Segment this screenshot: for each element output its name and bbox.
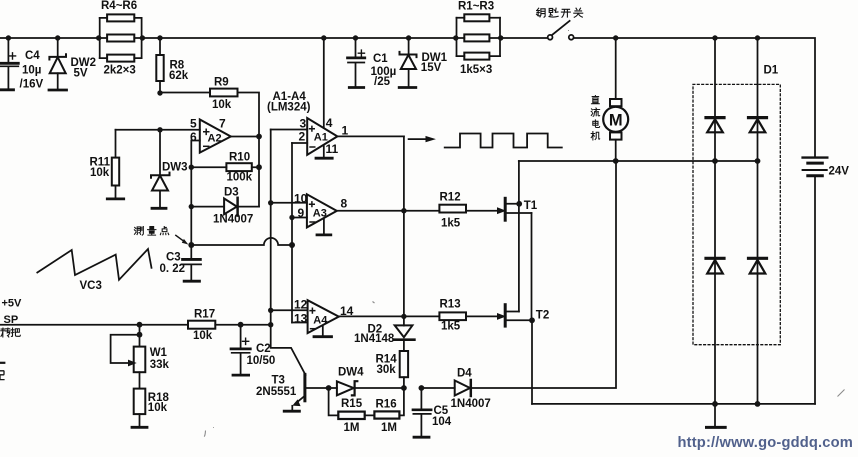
svg-text:R17: R17 [194,308,215,320]
svg-text:100k: 100k [227,172,253,184]
svg-text:3: 3 [300,116,307,130]
svg-text:10k: 10k [90,167,110,179]
svg-text:C4: C4 [25,50,40,62]
svg-text:5: 5 [190,117,197,131]
svg-text:http://www.go-gddq.com: http://www.go-gddq.com [678,435,854,451]
svg-text:7: 7 [219,117,226,131]
svg-text:A4: A4 [313,314,328,326]
svg-text:1M: 1M [344,422,360,434]
svg-text:R15: R15 [341,398,363,410]
svg-text:W1: W1 [150,347,168,359]
svg-text:9: 9 [298,206,305,220]
svg-text:104: 104 [432,416,452,428]
svg-text:R9: R9 [214,77,229,89]
svg-text:/16V: /16V [20,79,44,91]
svg-text:T2: T2 [536,310,549,322]
svg-text:1N4007: 1N4007 [451,398,491,410]
svg-text:C3: C3 [166,252,181,264]
svg-text:(LM324): (LM324) [267,102,311,114]
svg-text:1k5: 1k5 [441,217,461,229]
svg-text:R12: R12 [440,192,461,204]
svg-text:5V: 5V [74,68,88,80]
svg-text:VC3: VC3 [80,280,102,292]
svg-text:T1: T1 [524,200,538,212]
svg-text:T3: T3 [272,375,285,387]
svg-text:DW4: DW4 [338,367,364,379]
svg-text:M: M [609,112,623,130]
svg-text:DW3: DW3 [162,162,188,174]
svg-text:1M: 1M [381,422,397,434]
svg-text:11: 11 [326,142,339,156]
svg-text:A1: A1 [314,132,328,144]
svg-text:12: 12 [294,298,308,312]
svg-text:4: 4 [326,116,333,130]
svg-text:1k5×3: 1k5×3 [460,64,492,76]
svg-text:C1: C1 [373,53,388,65]
svg-text:10: 10 [294,191,308,205]
svg-text:2: 2 [299,129,306,143]
svg-text:R4~R6: R4~R6 [101,0,137,12]
svg-text:8: 8 [341,196,348,210]
svg-text:D4: D4 [457,367,472,379]
svg-text:1N4148: 1N4148 [354,333,395,345]
svg-text:R13: R13 [440,299,461,311]
svg-text:R1~R3: R1~R3 [458,1,494,13]
svg-text:10k: 10k [193,330,213,342]
svg-text:10k: 10k [212,99,232,111]
svg-text:6: 6 [190,130,197,144]
svg-text:14: 14 [340,304,354,318]
svg-text:R16: R16 [376,399,397,411]
svg-text:1: 1 [342,124,349,138]
svg-text:C2: C2 [256,343,271,355]
svg-text:13: 13 [294,312,308,326]
svg-text:A3: A3 [313,208,327,220]
svg-text:1k5: 1k5 [441,321,461,333]
svg-text:15V: 15V [421,62,442,74]
svg-text:1N4007: 1N4007 [213,214,253,226]
svg-text:R10: R10 [229,152,250,164]
svg-text:33k: 33k [150,359,170,371]
svg-text:0. 22: 0. 22 [160,263,186,275]
svg-text:A2: A2 [208,133,222,145]
svg-text:2k2×3: 2k2×3 [104,65,136,77]
svg-text:SP: SP [4,314,19,326]
svg-text:2N5551: 2N5551 [256,386,297,398]
svg-text:D3: D3 [224,187,239,199]
svg-text:10k: 10k [148,402,168,414]
svg-text:24V: 24V [829,166,850,178]
svg-text:10/50: 10/50 [247,355,276,367]
svg-text:/25: /25 [374,76,391,88]
svg-text:D1: D1 [764,65,779,77]
svg-text:10µ: 10µ [22,65,41,77]
svg-text:+5V: +5V [2,297,23,309]
svg-text:C5: C5 [434,405,449,417]
svg-text:30k: 30k [377,364,397,376]
svg-text:62k: 62k [169,70,189,82]
